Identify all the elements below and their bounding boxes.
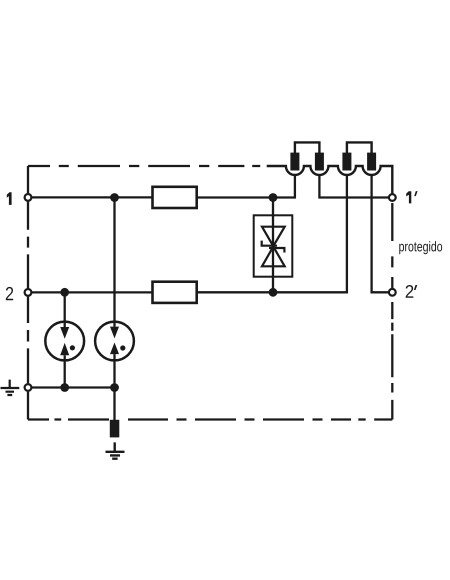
junction node B (2-line / F1) bbox=[60, 288, 69, 297]
PE feed-through block bbox=[110, 420, 120, 438]
label terminal 2' bbox=[406, 285, 414, 298]
resistor R1 bbox=[153, 187, 197, 208]
wire: bridge over contacts K3-K4 bbox=[347, 142, 372, 153]
wire: arrester F1 bottom to ground bus bbox=[64, 355, 66, 387]
TVS D1 upper triangle bbox=[262, 227, 285, 247]
ground symbol (left, at terminal PE) bbox=[1, 380, 20, 395]
TVS D1 lower cathode bar with hook bbox=[269, 248, 284, 253]
wire: ground bus (terminal PE to F2) bbox=[31, 386, 114, 388]
label terminal 2' prime bbox=[414, 285, 417, 290]
wire: R2 to node B, right and up to hump 3 bbox=[197, 175, 347, 292]
junction node (ground bus / F1) bbox=[60, 383, 69, 392]
resistor R2 bbox=[153, 282, 197, 303]
TVS D1 upper cathode bar with hook bbox=[262, 241, 277, 246]
contact blade K3 bbox=[342, 153, 351, 171]
F2 lower arrow bbox=[110, 343, 119, 355]
gas discharge tube F2 circle bbox=[95, 322, 134, 361]
wire: top bus with crossover humps (y=166) and right border drop to 1' bbox=[267, 166, 393, 194]
junction node (R1 / TVS top) bbox=[269, 193, 278, 202]
wire: terminal 2 to resistor R2 bbox=[31, 291, 152, 293]
terminal 2 bbox=[25, 289, 32, 296]
enclosure border right (dash-dot, x=392.3) bbox=[391, 203, 393, 420]
wire: node B drop to arrester F1 bbox=[64, 292, 66, 327]
F2 upper arrow bbox=[110, 327, 119, 339]
F1 gas dot bbox=[70, 345, 75, 350]
wire: hump 2 down, then to terminal 1' bbox=[319, 175, 389, 198]
F2 gas dot bbox=[120, 345, 125, 350]
F1 lower arrow bbox=[60, 343, 69, 355]
enclosure border left (dash-dot, x=28) bbox=[27, 166, 29, 420]
terminal 1 bbox=[25, 194, 32, 201]
wire: node A drop through row 2 to arrester F2 bbox=[113, 198, 115, 327]
F1 upper arrow bbox=[60, 327, 69, 339]
wire: arrester F2 bottom to ground bus bbox=[113, 354, 115, 387]
label terminal 1' prime bbox=[414, 191, 417, 196]
enclosure border bottom (dash-dot, y=419.5) bbox=[28, 418, 392, 420]
terminal 1' bbox=[389, 194, 396, 201]
wire: bridge over contacts K1-K2 bbox=[295, 142, 320, 153]
contact blade K4 bbox=[367, 153, 376, 171]
wire: terminal 1 to resistor R1 bbox=[31, 196, 152, 198]
TVS suppressor diode D1 box bbox=[254, 215, 293, 276]
enclosure border top (dash-dot, y=166) bbox=[28, 165, 260, 167]
TVS D1 lower triangle bbox=[262, 247, 285, 267]
terminal 2' bbox=[389, 289, 396, 296]
label terminal 2 bbox=[6, 287, 13, 300]
gas discharge tube F1 circle bbox=[45, 322, 84, 361]
terminal PE bbox=[25, 384, 32, 391]
contact blade K2 bbox=[315, 153, 324, 171]
junction node A (1-line / F2) bbox=[110, 193, 119, 202]
label terminal 1' bbox=[406, 191, 411, 203]
junction node (ground bus / F2 / PE drop) bbox=[110, 383, 119, 392]
wire: hump 4 down, then to terminal 2' bbox=[372, 175, 389, 292]
label terminal 1 bbox=[7, 192, 12, 205]
junction node (R2 / TVS bottom) bbox=[269, 288, 278, 297]
label protected side bbox=[399, 241, 442, 254]
wire: vertical through TVS D1 bbox=[272, 198, 274, 293]
wire: R1 to node A, up to hump 1 bbox=[197, 175, 295, 198]
contact blade K1 bbox=[290, 153, 299, 171]
ground symbol (bottom, below PE block) bbox=[106, 442, 125, 458]
wire: PE drop through enclosure bbox=[113, 388, 115, 421]
